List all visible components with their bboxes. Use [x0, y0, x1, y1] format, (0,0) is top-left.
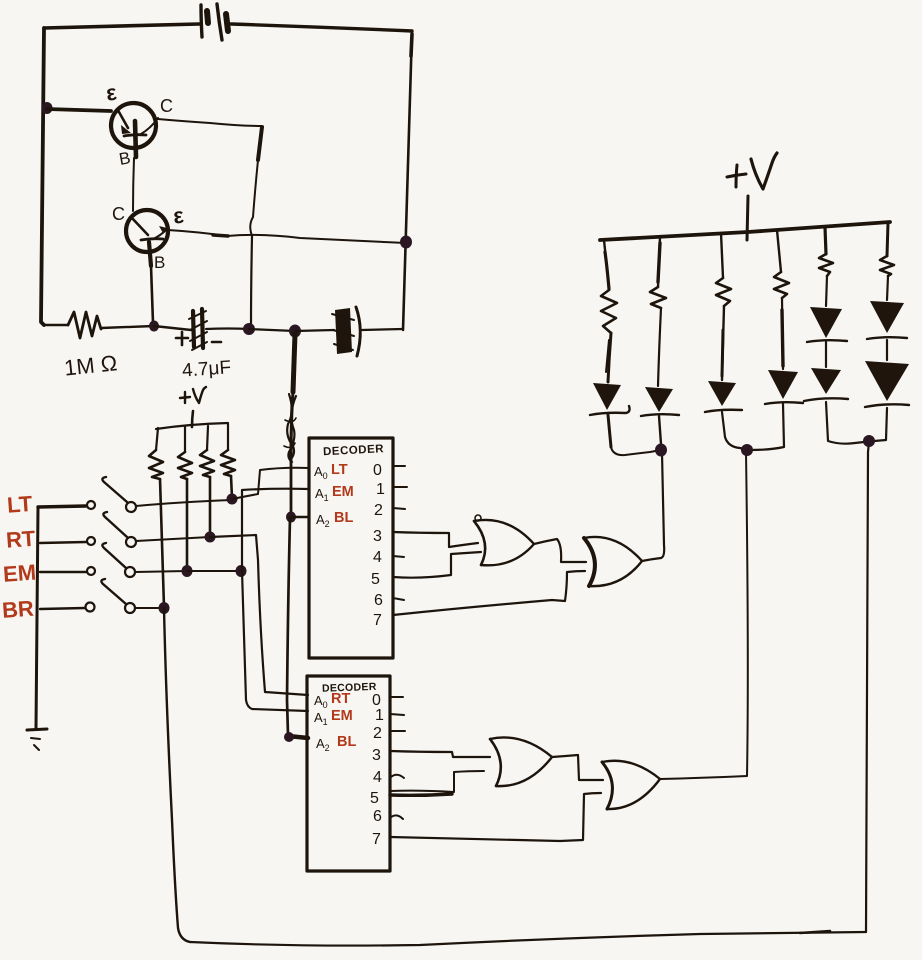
wire bottom rail — [190, 932, 866, 946]
led D1 — [590, 383, 630, 415]
node BR — [159, 602, 170, 614]
branch 4: wire from rail — [777, 230, 781, 272]
wire LED1 down — [608, 415, 611, 447]
wire top rail left of battery — [44, 24, 199, 28]
svg-text:B: B — [154, 253, 165, 272]
wire node E to capacitor C2 — [295, 330, 334, 331]
switch SW-BR — [40, 579, 163, 613]
branch 2: wire from rail — [658, 237, 660, 287]
svg-text:5: 5 — [371, 571, 380, 588]
wire OR3 out to OR4 — [552, 755, 603, 780]
led D4 — [765, 370, 803, 404]
node B (Q2 emitter to rail) — [400, 236, 412, 249]
led D3 — [705, 381, 742, 412]
resistor RP3 — [207, 426, 208, 450]
battery B1 — [201, 4, 228, 40]
transistor Q1 — [111, 103, 158, 157]
branch 1: wire from rail — [604, 240, 609, 290]
transistor Q2 — [126, 210, 168, 266]
wire LED3 to node 3-4 — [722, 412, 744, 449]
resistor RL2 — [650, 287, 666, 308]
wire OR1 out to OR2 — [534, 539, 586, 562]
wire U1 out0 tick — [393, 465, 405, 467]
wire EM row extension — [187, 570, 240, 572]
switch SW-EM — [40, 543, 187, 577]
node LED pair 3-4 — [741, 444, 753, 456]
ground — [27, 729, 47, 750]
switch SW-LT — [38, 477, 232, 512]
resistor RP4 — [227, 424, 229, 450]
wire BL blink line from oscillator node E — [293, 334, 295, 392]
node D — [243, 323, 255, 335]
wire BR down to bottom rail — [164, 608, 190, 942]
wire RL2 to LED2 — [658, 308, 661, 386]
wire RT to decoder2 A0 — [210, 535, 308, 695]
svg-text:C: C — [112, 204, 125, 224]
wire LED4 to node 3-4 — [750, 404, 784, 450]
node EM1 — [182, 565, 193, 577]
svg-text:1: 1 — [375, 707, 384, 724]
svg-text:BL: BL — [337, 734, 356, 750]
wire node D to node E — [249, 329, 295, 331]
svg-text:2: 2 — [374, 502, 383, 519]
svg-text:EM: EM — [2, 560, 37, 587]
wire left rail — [41, 28, 44, 325]
wire U2 out3 to OR3 — [390, 751, 490, 757]
label +V pullups — [180, 387, 206, 403]
wire RP1 to BR node — [160, 479, 164, 607]
svg-text:3: 3 — [373, 528, 382, 545]
svg-text:2: 2 — [373, 725, 382, 742]
wire U1 out3 to OR1 — [393, 532, 478, 547]
wire U1 out4 tick — [393, 556, 404, 557]
led D6b — [865, 361, 909, 407]
wire U2 out2 tick — [390, 730, 405, 732]
svg-text:BR: BR — [1, 596, 35, 623]
wire BL to A2 — [290, 462, 293, 517]
SECTION: led array — [590, 153, 909, 457]
wire U1 out5 to OR1 — [393, 552, 481, 578]
resistor RL5 — [819, 254, 833, 276]
wire RP2 to EM node — [186, 479, 189, 570]
wire RL1 to LED1 — [608, 333, 611, 382]
svg-text:RT: RT — [5, 526, 37, 553]
wire OR2 out up to LED pair 1-2 — [642, 453, 664, 561]
wire capacitor to node D — [206, 327, 249, 330]
wire Q1 collector — [158, 119, 262, 126]
led D2 — [641, 387, 679, 416]
svg-text:BL: BL — [334, 510, 353, 526]
wire U2 out7 to OR4 — [390, 793, 601, 841]
wire Q2 base down — [151, 266, 153, 323]
svg-text:6: 6 — [374, 592, 383, 609]
resistor RL3 — [716, 278, 731, 306]
wire +V tick — [747, 196, 748, 240]
wire ground bus — [36, 507, 38, 728]
wire right riser to LED pair 5-6 — [866, 442, 869, 932]
svg-text:C: C — [160, 96, 173, 116]
SECTION: decoder2 — [307, 676, 405, 871]
wire pullup bus — [156, 423, 228, 429]
wire +V tick — [192, 411, 193, 427]
svg-text:LT: LT — [6, 491, 33, 518]
wire U2 out4 tick — [391, 775, 404, 778]
wire U1 out2 tick — [393, 508, 405, 509]
or-gate G1 — [474, 515, 534, 565]
svg-text:7: 7 — [372, 831, 381, 848]
svg-text:0: 0 — [373, 462, 382, 479]
switch SW-RT — [40, 512, 210, 547]
capacitor C1 4.7uF — [176, 309, 221, 350]
wire D6a to D6b — [886, 340, 888, 360]
or-gate G4 — [602, 761, 660, 809]
led D5b — [804, 368, 848, 401]
wire LED5 to node 5-6 — [826, 402, 864, 444]
svg-text:EM: EM — [332, 484, 354, 500]
resistor RP2 — [184, 427, 186, 452]
wire capacitor C2 to right rail — [362, 329, 403, 330]
wire LED2 to node 1-2 — [659, 416, 661, 444]
wire RL3 to LED3 — [722, 306, 724, 380]
label +V LED rail — [727, 153, 777, 189]
wire LED +V rail — [600, 222, 890, 240]
led D5a — [807, 307, 847, 342]
wire Q1 base to Q2 — [133, 158, 134, 211]
wire Q2 emitter to right rail — [168, 230, 406, 243]
wire bottom left — [44, 324, 68, 327]
wire RL5 to LED5a — [826, 276, 827, 306]
svg-text:4.7μF: 4.7μF — [181, 357, 231, 381]
wire BL down to decoder2 A2 — [287, 518, 290, 735]
wire right rail — [403, 31, 412, 330]
resistor RP1 — [156, 428, 158, 450]
branch 5: wire from rail — [825, 227, 826, 254]
decoder U1 box — [309, 438, 393, 658]
wire OR4 out up to LED pair 3-4 — [660, 452, 748, 779]
wire to node C — [101, 326, 154, 328]
node C (Q2 base junction) — [149, 321, 159, 332]
or-gate G3 — [490, 737, 552, 786]
wire U1 out1 tick — [393, 486, 407, 488]
wire top rail right of battery — [231, 24, 412, 31]
wire U2 out5 to OR3 — [390, 771, 484, 792]
wire Q1 emitter — [47, 109, 111, 111]
svg-text:4: 4 — [373, 769, 382, 786]
wire BL1 stub to decoder1 A2 — [291, 516, 309, 518]
wire EM to decoder1 A1 — [242, 489, 309, 571]
svg-text:1: 1 — [376, 481, 385, 498]
svg-text:4: 4 — [373, 549, 382, 566]
node E (oscillator output) — [289, 325, 301, 338]
wire U2 out6 tick — [391, 815, 403, 819]
branch 3: wire from rail — [721, 233, 723, 278]
wire RL6 to LED6a — [887, 276, 888, 300]
node LED pair 5-6 — [863, 435, 875, 447]
wire LED1 to node 1-2 — [611, 447, 659, 455]
SECTION: switches and pullups — [1, 387, 869, 946]
capacitor C2 — [332, 307, 360, 356]
wire LED6 to node 5-6 — [874, 408, 887, 441]
node RT — [205, 532, 216, 543]
or-gate G2 — [584, 537, 642, 586]
svg-text:LT: LT — [331, 462, 348, 478]
svg-text:6: 6 — [373, 808, 382, 825]
wire RP3 to RT node — [209, 477, 212, 536]
wire D5a to D5b — [825, 342, 827, 367]
svg-text:7: 7 — [373, 612, 382, 629]
node A (Q1 emitter junction) — [42, 102, 53, 114]
node BL1 — [286, 512, 296, 523]
wire BL scribble — [288, 396, 296, 462]
node LED pair 1-2 — [655, 444, 667, 457]
SECTION: decoder1 — [284, 334, 407, 742]
wire U2 out0 tick — [390, 696, 403, 698]
resistor R1 1M — [68, 312, 101, 338]
SECTION: astable multivibrator top-left — [41, 4, 412, 382]
wire LT to decoder1 A0 — [232, 468, 309, 499]
decoder U2 box — [307, 676, 390, 871]
svg-text:EM: EM — [331, 708, 353, 724]
svg-text:3: 3 — [372, 747, 381, 764]
wire RL4 to LED4 — [782, 298, 783, 369]
node EM2 — [236, 565, 247, 577]
wire U1 out7 to OR2 — [393, 571, 585, 615]
wire RP4 to LT node — [231, 476, 232, 498]
resistor RL6 — [880, 256, 894, 276]
svg-text:5: 5 — [370, 790, 379, 807]
resistor RL4 — [774, 272, 789, 298]
branch 6: wire from rail — [887, 223, 888, 256]
wire EM to decoder2 A1 — [242, 571, 308, 711]
SECTION: or gates — [390, 452, 748, 841]
wire node C to capacitor — [154, 326, 191, 330]
node BL2 — [284, 732, 294, 742]
wire U2 out1 tick — [390, 714, 404, 715]
wire U1 out6 tick — [393, 598, 404, 600]
led D6a — [867, 301, 907, 339]
node LT — [227, 494, 238, 505]
svg-text:RT: RT — [331, 691, 350, 707]
resistor RL1 — [601, 290, 617, 333]
